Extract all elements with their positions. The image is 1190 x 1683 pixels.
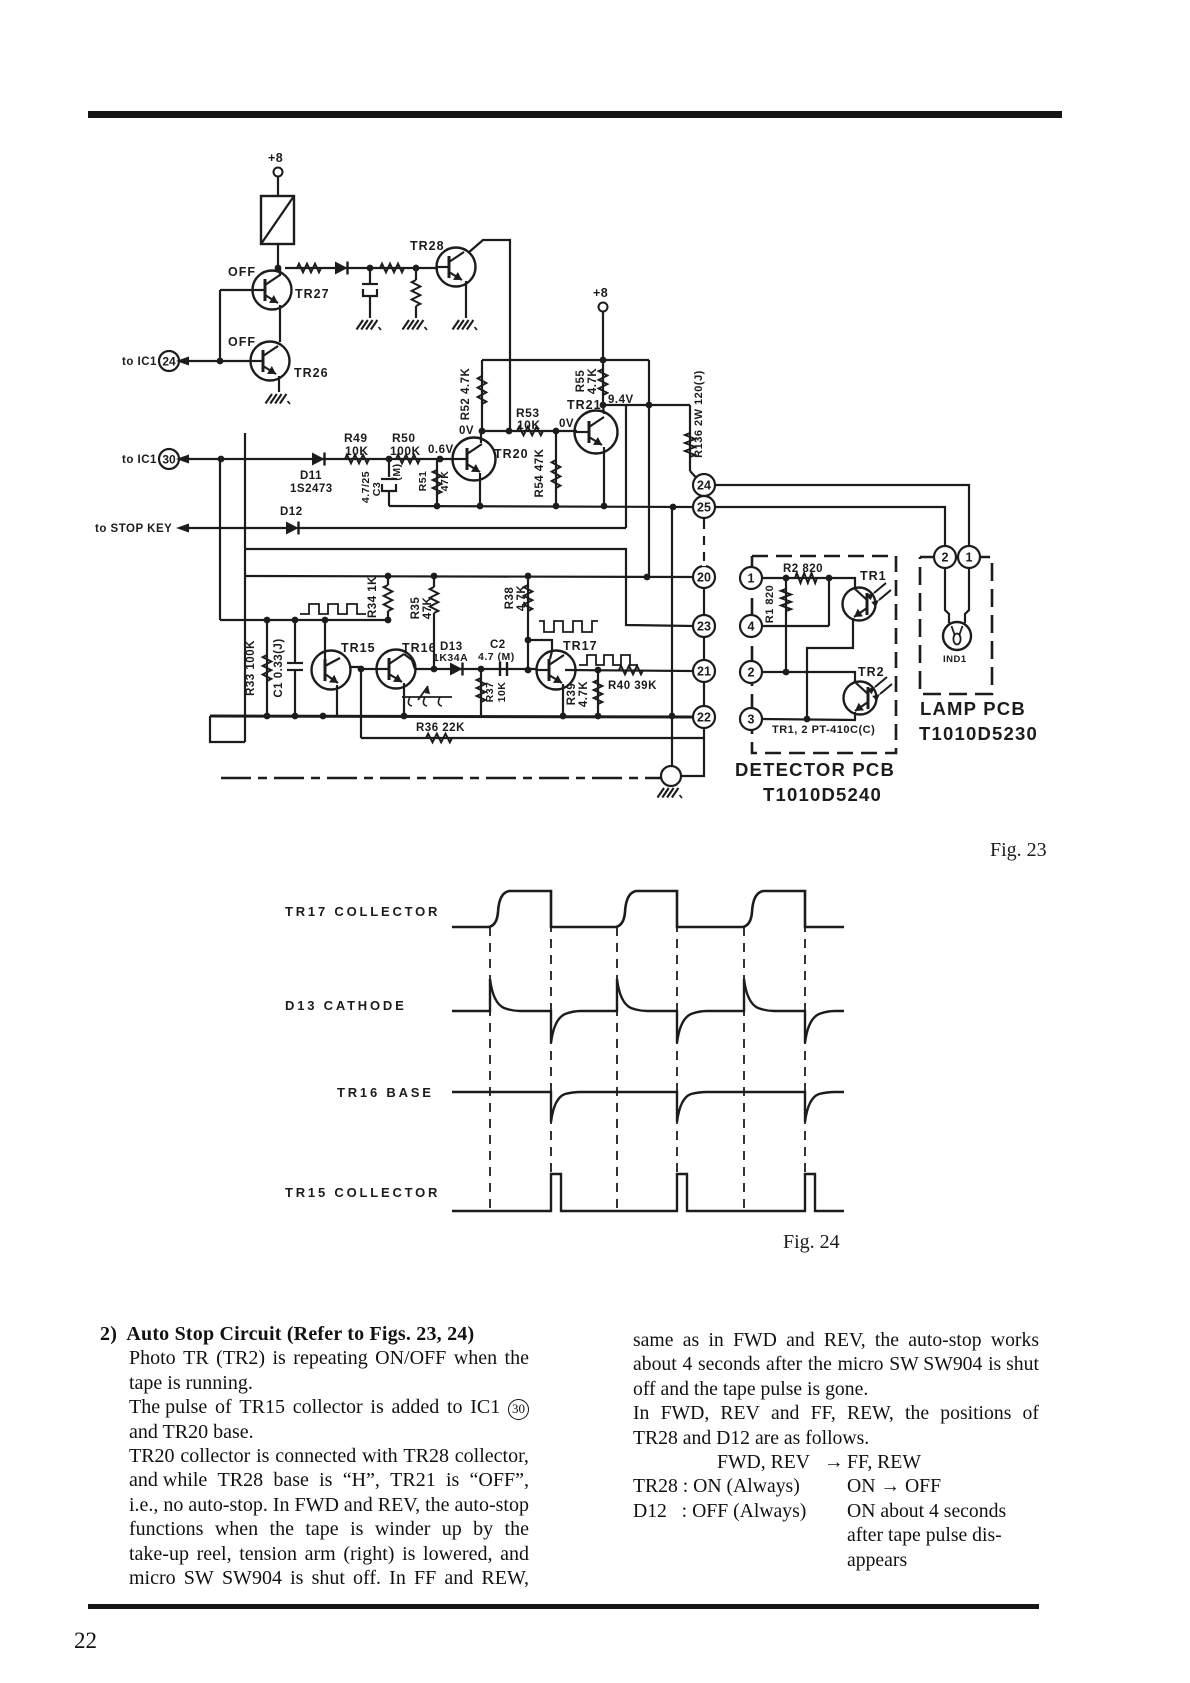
svg-text:4.7K: 4.7K — [578, 681, 590, 707]
svg-text:R52 4.7K: R52 4.7K — [460, 368, 472, 421]
svg-text:R34 1K: R34 1K — [367, 576, 379, 618]
svg-text:TR17 COLLECTOR: TR17 COLLECTOR — [285, 904, 440, 919]
svg-text:TR17: TR17 — [563, 639, 598, 653]
svg-text:TR15 COLLECTOR: TR15 COLLECTOR — [285, 1185, 440, 1200]
svg-text:R35: R35 — [410, 597, 422, 620]
svg-text:21: 21 — [697, 665, 711, 679]
svg-text:10K: 10K — [496, 682, 508, 703]
svg-text:C3: C3 — [371, 482, 383, 496]
svg-text:TR16: TR16 — [402, 641, 437, 655]
svg-text:TR20: TR20 — [494, 447, 529, 461]
svg-text:IND1: IND1 — [943, 654, 967, 665]
svg-text:to IC1: to IC1 — [122, 356, 157, 368]
svg-text:(M): (M) — [391, 463, 403, 480]
svg-text:TR15: TR15 — [341, 641, 376, 655]
svg-text:2: 2 — [748, 666, 755, 680]
svg-text:4.7 (M): 4.7 (M) — [478, 651, 515, 663]
svg-text:24: 24 — [162, 354, 176, 368]
svg-text:+8: +8 — [593, 286, 608, 300]
svg-text:R2 820: R2 820 — [783, 563, 823, 575]
svg-text:T1010D5230: T1010D5230 — [919, 723, 1038, 744]
svg-text:0V: 0V — [459, 425, 474, 437]
svg-text:R39: R39 — [566, 683, 578, 706]
svg-text:R37: R37 — [484, 682, 496, 703]
svg-text:OFF: OFF — [228, 335, 256, 349]
svg-text:3: 3 — [748, 713, 755, 727]
svg-text:R40 39K: R40 39K — [608, 680, 657, 692]
svg-text:0V: 0V — [559, 418, 574, 430]
svg-text:C1 0.33(J): C1 0.33(J) — [273, 638, 285, 697]
svg-text:R38: R38 — [504, 587, 516, 610]
svg-text:47K: 47K — [439, 471, 451, 492]
svg-text:24: 24 — [697, 479, 711, 493]
svg-text:1: 1 — [966, 551, 973, 565]
svg-text:OFF: OFF — [228, 265, 256, 279]
svg-text:1: 1 — [748, 572, 755, 586]
svg-text:R54 47K: R54 47K — [534, 448, 546, 497]
svg-text:4: 4 — [748, 620, 755, 634]
svg-text:10K: 10K — [517, 418, 541, 432]
svg-text:Fig. 23: Fig. 23 — [990, 839, 1047, 861]
svg-text:0.6V: 0.6V — [428, 444, 454, 456]
svg-text:47K: 47K — [422, 597, 434, 620]
svg-text:R49: R49 — [344, 431, 368, 445]
svg-text:to IC1: to IC1 — [122, 454, 157, 466]
svg-text:D13 CATHODE: D13 CATHODE — [285, 998, 407, 1013]
svg-text:100K: 100K — [390, 444, 421, 458]
svg-text:10K: 10K — [345, 444, 369, 458]
svg-text:R1 820: R1 820 — [764, 585, 776, 623]
svg-text:T1010D5240: T1010D5240 — [763, 784, 882, 805]
svg-text:TR27: TR27 — [295, 287, 330, 301]
svg-text:R33 100K: R33 100K — [245, 640, 257, 696]
svg-text:25: 25 — [697, 501, 711, 515]
svg-text:TR26: TR26 — [294, 366, 329, 380]
svg-text:2: 2 — [942, 551, 949, 565]
svg-text:TR2: TR2 — [858, 665, 885, 679]
svg-text:TR21: TR21 — [567, 398, 602, 412]
svg-text:R36 22K: R36 22K — [416, 722, 465, 734]
svg-text:1K34A: 1K34A — [433, 652, 468, 664]
svg-text:22: 22 — [697, 711, 711, 725]
svg-text:DETECTOR PCB: DETECTOR PCB — [735, 759, 895, 780]
svg-text:4.7K: 4.7K — [587, 368, 599, 394]
svg-text:R55: R55 — [575, 370, 587, 393]
svg-text:30: 30 — [162, 452, 176, 466]
svg-text:R136 2W 120(J): R136 2W 120(J) — [693, 370, 705, 458]
svg-text:C2: C2 — [490, 639, 506, 651]
svg-text:D11: D11 — [300, 470, 322, 482]
svg-text:D12: D12 — [280, 506, 303, 518]
svg-text:LAMP PCB: LAMP PCB — [920, 698, 1026, 719]
svg-text:to STOP KEY: to STOP KEY — [95, 523, 172, 535]
svg-text:20: 20 — [697, 571, 711, 585]
svg-text:23: 23 — [697, 620, 711, 634]
svg-text:TR1: TR1 — [860, 569, 887, 583]
svg-text:TR16 BASE: TR16 BASE — [337, 1085, 434, 1100]
svg-text:1S2473: 1S2473 — [290, 483, 333, 495]
svg-text:R51: R51 — [417, 471, 429, 492]
svg-text:TR28: TR28 — [410, 239, 445, 253]
svg-text:TR1, 2 PT-410C(C): TR1, 2 PT-410C(C) — [772, 724, 875, 736]
svg-text:4.7K: 4.7K — [516, 585, 528, 611]
svg-text:R50: R50 — [392, 431, 416, 445]
svg-text:+8: +8 — [268, 151, 283, 165]
svg-text:Fig. 24: Fig. 24 — [783, 1231, 840, 1253]
